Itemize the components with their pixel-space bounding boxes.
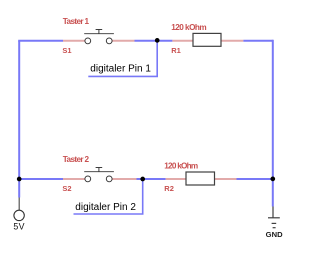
wire R1 to right rail: [243, 40, 272, 42]
pushbutton S2: [84, 168, 114, 182]
pushbutton S1: [84, 30, 114, 44]
svg-text:5V: 5V: [13, 222, 25, 232]
resistor R1: [193, 33, 221, 46]
S2 pin 1: [63, 178, 85, 180]
power 5V stem: [18, 198, 20, 211]
net label connector digitaler Pin 2: [74, 179, 143, 214]
junction GND rail / R2: [270, 177, 275, 182]
R1 pin 2: [221, 40, 243, 42]
svg-text:digitaler Pin 2: digitaler Pin 2: [75, 202, 136, 213]
svg-text:120 kOhm: 120 kOhm: [171, 23, 207, 32]
svg-text:S1: S1: [62, 46, 71, 55]
svg-text:R1: R1: [171, 46, 181, 55]
S1 pin 2: [112, 40, 135, 42]
R2 pin 2: [215, 178, 237, 180]
wire bottom rail left segment: [19, 178, 63, 180]
wire top rail left segment: [18, 40, 63, 42]
S2 pin 2: [112, 178, 137, 180]
resistor R2: [186, 172, 215, 185]
svg-text:Taster 2: Taster 2: [63, 155, 90, 164]
R2 pin 1: [166, 178, 186, 180]
junction node digitaler Pin 2: [140, 177, 145, 182]
wire right vertical (GND rail): [272, 40, 274, 207]
wire S1 to junction digitaler Pin 1: [135, 40, 173, 42]
R1 pin 1: [172, 40, 193, 42]
junction 5V rail / S2: [17, 177, 22, 182]
svg-text:digitaler Pin 1: digitaler Pin 1: [90, 64, 151, 75]
net label connector digitaler Pin 1: [88, 41, 157, 77]
junction node digitaler Pin 1: [155, 38, 160, 43]
wire R2 to right rail: [237, 178, 273, 180]
svg-text:GND: GND: [266, 230, 284, 239]
ground GND symbol: [268, 207, 280, 228]
wire S2 to junction digitaler Pin 2: [137, 178, 166, 180]
power 5V terminal circle: [14, 210, 24, 220]
svg-text:S2: S2: [62, 184, 71, 193]
svg-text:Taster 1: Taster 1: [63, 17, 90, 26]
svg-text:120 kOhm: 120 kOhm: [164, 162, 198, 171]
S1 pin 1: [63, 40, 85, 42]
svg-text:R2: R2: [164, 184, 174, 193]
wire left vertical (5V rail): [18, 41, 20, 198]
